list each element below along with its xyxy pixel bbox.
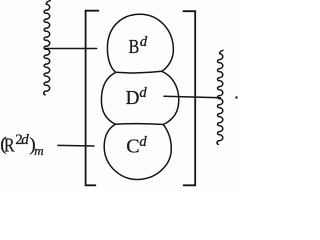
left bracket xyxy=(86,11,99,186)
svg-text:C: C xyxy=(126,135,139,157)
svg-text:d: d xyxy=(21,132,29,148)
label (R2d)m xyxy=(0,132,43,158)
svg-text:d: d xyxy=(140,34,148,50)
ring C outline xyxy=(104,124,171,179)
right bracket xyxy=(183,11,195,185)
ring D left outline xyxy=(101,72,115,124)
wavy bond (left attachment squiggle) xyxy=(44,1,50,95)
label C^d xyxy=(126,134,147,157)
label B^d xyxy=(129,34,148,58)
B/D junction chord xyxy=(116,71,162,73)
wire: left squiggle to ring B xyxy=(45,48,96,50)
svg-text:B: B xyxy=(129,36,140,58)
svg-text:d: d xyxy=(139,85,147,101)
wire: ring D to right squiggle xyxy=(164,96,221,98)
label D^d xyxy=(126,85,148,109)
svg-text:D: D xyxy=(126,87,140,109)
wavy bond (right attachment squiggle) xyxy=(217,50,223,144)
svg-text:m: m xyxy=(34,143,43,158)
ring B outline xyxy=(107,14,173,72)
ring D right outline xyxy=(162,71,179,124)
svg-text:d: d xyxy=(139,134,147,150)
svg-text:R: R xyxy=(4,135,15,157)
wire: (R2d)m to ring C xyxy=(58,144,94,147)
period dot after formula xyxy=(235,96,237,98)
D/C junction chord xyxy=(115,123,163,126)
